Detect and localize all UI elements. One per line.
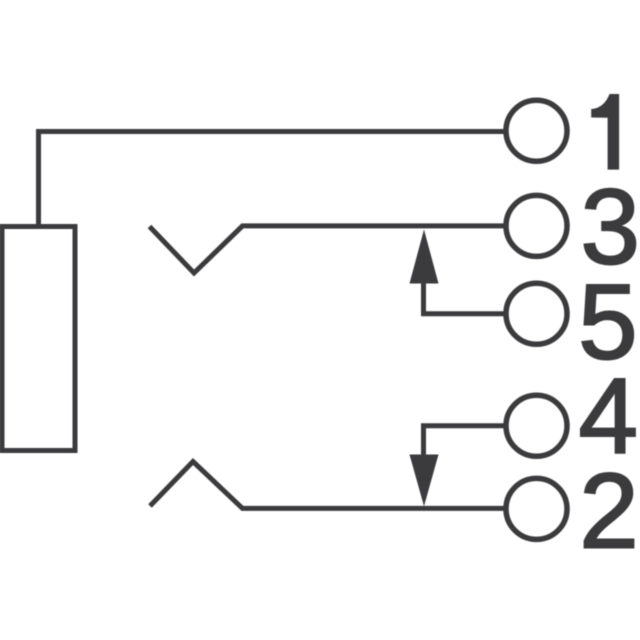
terminal circle pin 1 [506,100,567,161]
terminal circle pin 4 [506,395,567,456]
jack body (sleeve) rectangle [2,227,75,451]
wire: tip contact arm (V notch) to pin 3 terminal [150,226,506,273]
pin label 1 [591,94,619,170]
wire: sleeve to pin 1 terminal [39,132,506,230]
terminal circle pin 2 [506,478,567,539]
wire: pin 4 terminal elbow to down-arrow [424,426,506,456]
wire: ring contact arm (^ notch) to pin 2 terminal [150,462,505,509]
arrowhead pointing down (pin 4 to ring contact) [410,455,439,507]
terminal circle pin 3 [506,195,567,256]
wire: pin 5 terminal elbow to up-arrow [424,282,506,314]
arrowhead pointing up (pin 5 to tip contact) [410,230,439,284]
terminal circle pin 5 [506,283,567,344]
svg-text:2: 2 [579,450,639,570]
